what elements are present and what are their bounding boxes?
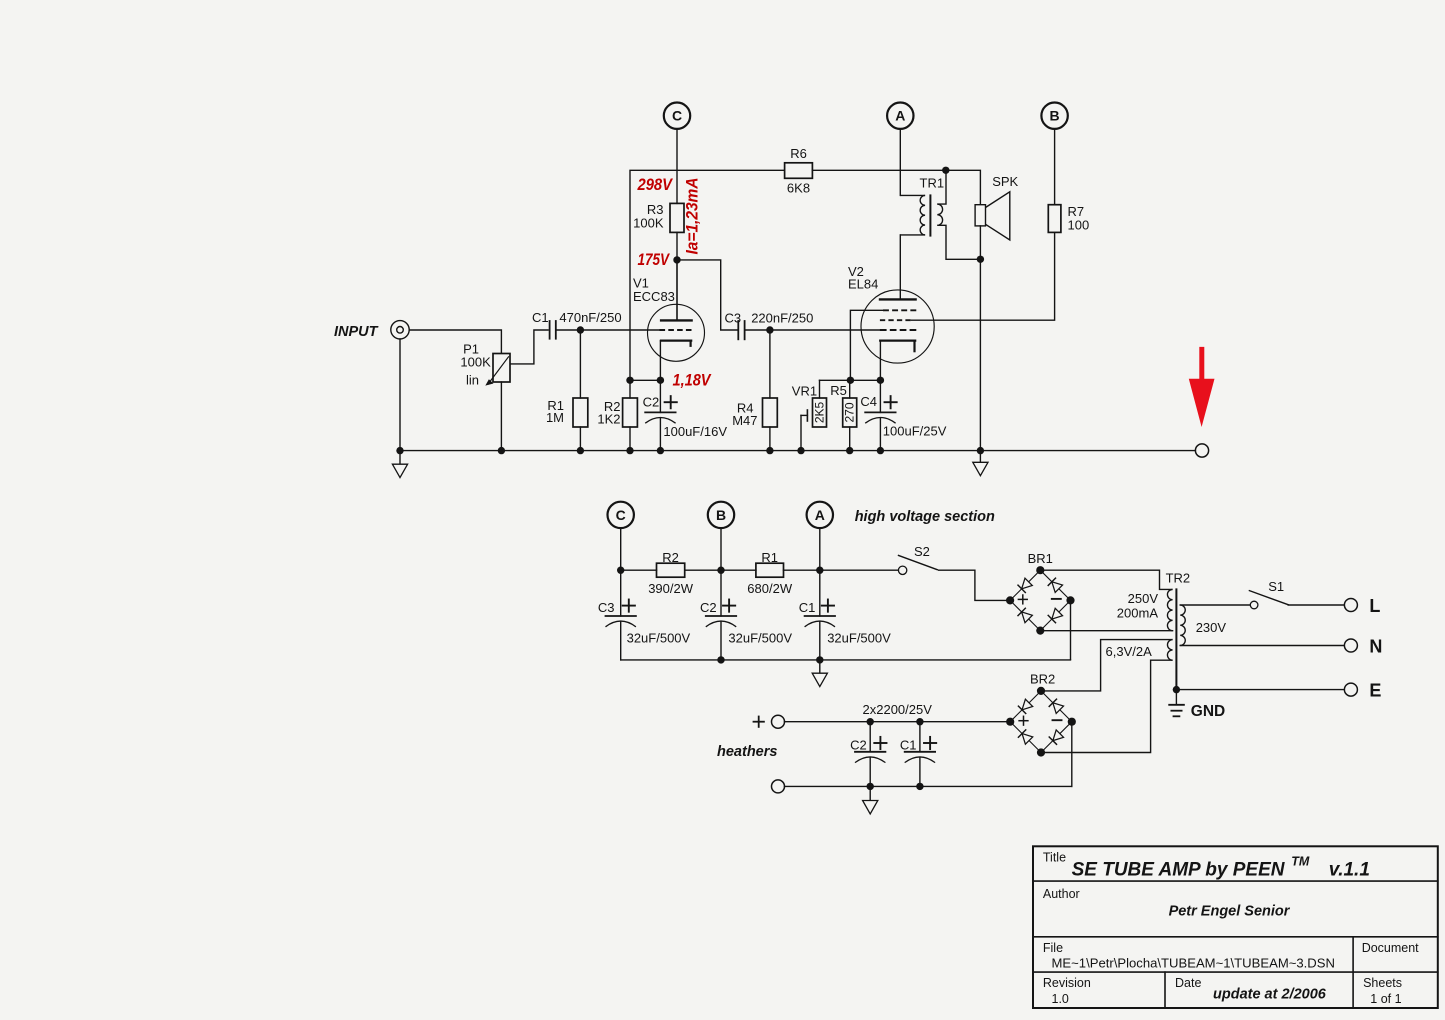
title block frame bbox=[1033, 846, 1438, 1008]
svg-text:220nF/250: 220nF/250 bbox=[751, 310, 813, 325]
resistor R1 bbox=[573, 330, 588, 451]
svg-text:B: B bbox=[1050, 108, 1060, 124]
R2 labels bbox=[597, 399, 620, 427]
wire R7 to V2 screen grid g2 bbox=[911, 232, 1055, 320]
transformer TR2 250V winding bbox=[1167, 589, 1172, 630]
svg-text:C2: C2 bbox=[643, 394, 660, 409]
heater bottom bus bbox=[785, 783, 1072, 790]
svg-text:high voltage section: high voltage section bbox=[855, 509, 995, 525]
TR2 label bbox=[1166, 571, 1191, 586]
V2 cathode junction row bbox=[820, 377, 885, 384]
S2 label bbox=[914, 544, 930, 559]
svg-text:1.0: 1.0 bbox=[1052, 992, 1069, 1006]
C2 labels bbox=[643, 394, 728, 439]
svg-text:230V: 230V bbox=[1196, 620, 1227, 635]
wire R3 to 175V node and V1 anode bbox=[676, 232, 678, 320]
svg-text:S1: S1 bbox=[1268, 579, 1284, 594]
svg-text:100uF/25V: 100uF/25V bbox=[883, 424, 947, 439]
svg-text:2K5: 2K5 bbox=[813, 402, 827, 424]
svg-text:680/2W: 680/2W bbox=[747, 581, 793, 596]
R3 labels bbox=[633, 202, 664, 231]
junction V1 cathode row bbox=[626, 377, 664, 384]
resistor R7 bbox=[1048, 205, 1061, 233]
red label Ia=1,23mA (rotated) bbox=[683, 178, 702, 255]
svg-text:E: E bbox=[1369, 680, 1381, 700]
R5 labels bbox=[830, 383, 856, 423]
V2 labels bbox=[848, 264, 878, 292]
ground (input) bbox=[392, 451, 407, 478]
R1 psu labels bbox=[747, 550, 793, 596]
svg-text:1K2: 1K2 bbox=[597, 412, 620, 427]
wire core to E bbox=[1173, 686, 1345, 693]
svg-text:TM: TM bbox=[1291, 855, 1310, 869]
C1 heater labels bbox=[900, 737, 936, 752]
svg-text:6,3V/2A: 6,3V/2A bbox=[1106, 644, 1153, 659]
switch S1 bbox=[1180, 591, 1344, 609]
TR2 core bbox=[1175, 589, 1177, 689]
C2 psu labels bbox=[700, 600, 792, 646]
R2 psu labels bbox=[648, 550, 694, 596]
potentiometer P1 bbox=[485, 354, 510, 386]
svg-text:Sheets: Sheets bbox=[1363, 976, 1402, 990]
svg-text:6K8: 6K8 bbox=[787, 181, 810, 196]
svg-text:File: File bbox=[1043, 941, 1063, 955]
capacitor C4 bbox=[865, 380, 895, 450]
svg-text:C1: C1 bbox=[799, 600, 816, 615]
terminal N bbox=[1344, 636, 1382, 656]
svg-text:Title: Title bbox=[1043, 851, 1066, 865]
svg-text:C1: C1 bbox=[900, 737, 917, 752]
svg-text:32uF/500V: 32uF/500V bbox=[728, 631, 792, 646]
C3 value labels bbox=[725, 310, 814, 325]
svg-text:298V: 298V bbox=[637, 175, 674, 194]
svg-text:B: B bbox=[716, 507, 726, 523]
input jack J1 bbox=[391, 321, 409, 339]
svg-text:32uF/500V: 32uF/500V bbox=[827, 631, 891, 646]
svg-text:SE TUBE AMP by PEEN: SE TUBE AMP by PEEN bbox=[1072, 860, 1286, 881]
svg-text:390/2W: 390/2W bbox=[648, 581, 694, 596]
svg-text:ME~1\Petr\Plocha\TUBEAM~1\TUBE: ME~1\Petr\Plocha\TUBEAM~1\TUBEAM~3.DSN bbox=[1052, 955, 1335, 970]
svg-text:SPK: SPK bbox=[992, 174, 1018, 189]
TR1 label bbox=[920, 176, 945, 191]
bridge rectifier BR1 bbox=[1006, 566, 1075, 635]
resistor R2 (cathode) bbox=[623, 380, 638, 450]
bridge rectifier BR2 bbox=[1006, 687, 1076, 757]
high voltage section label bbox=[855, 509, 995, 525]
svg-text:C: C bbox=[672, 108, 682, 124]
wire to SPK top bbox=[946, 170, 981, 204]
svg-text:BR2: BR2 bbox=[1030, 672, 1055, 687]
svg-text:TR2: TR2 bbox=[1166, 571, 1191, 586]
ground rail (top section) bbox=[400, 450, 1195, 452]
svg-text:C3: C3 bbox=[725, 310, 742, 325]
C2 heater labels bbox=[850, 737, 886, 752]
svg-text:GND: GND bbox=[1191, 703, 1225, 720]
red label 1,18V bbox=[673, 370, 712, 389]
svg-text:C: C bbox=[616, 507, 626, 523]
R6 labels bbox=[787, 146, 810, 196]
node A (psu) bbox=[807, 502, 833, 571]
capacitor C2 (heater) bbox=[855, 722, 885, 787]
C3 psu labels bbox=[598, 600, 691, 646]
svg-text:lin: lin bbox=[466, 372, 479, 387]
svg-text:TR1: TR1 bbox=[920, 176, 945, 191]
red label 298V bbox=[637, 175, 674, 194]
svg-text:1,18V: 1,18V bbox=[673, 370, 712, 389]
junction 175V node bbox=[673, 256, 680, 263]
wire BR2 minus down bbox=[1071, 722, 1073, 787]
svg-text:INPUT: INPUT bbox=[334, 324, 379, 340]
svg-text:R5: R5 bbox=[830, 383, 847, 398]
svg-text:100: 100 bbox=[1068, 218, 1090, 233]
junction C3/R4 bbox=[766, 326, 773, 333]
svg-text:Ia=1,23mA: Ia=1,23mA bbox=[683, 178, 702, 255]
250V 200mA labels bbox=[1117, 591, 1159, 621]
R1 labels bbox=[546, 398, 564, 425]
VR1 labels bbox=[792, 384, 827, 423]
capacitor C1 (heater) bbox=[905, 722, 935, 787]
svg-text:100uF/16V: 100uF/16V bbox=[663, 424, 727, 439]
svg-text:470nF/250: 470nF/250 bbox=[559, 310, 621, 325]
svg-text:A: A bbox=[895, 108, 905, 124]
svg-text:C4: C4 bbox=[860, 394, 877, 409]
red arrow marker bbox=[1189, 347, 1215, 427]
6,3V/2A label bbox=[1106, 644, 1153, 659]
resistor R5 bbox=[843, 380, 857, 450]
svg-text:Revision: Revision bbox=[1043, 976, 1091, 990]
trimmer VR1 bbox=[801, 380, 827, 450]
230V label bbox=[1196, 620, 1227, 635]
svg-text:Petr Engel Senior: Petr Engel Senior bbox=[1169, 904, 1291, 920]
pentode V2 EL84 bbox=[861, 290, 934, 380]
svg-text:S2: S2 bbox=[914, 544, 930, 559]
BR2 label bbox=[1030, 672, 1055, 687]
svg-text:L: L bbox=[1369, 596, 1380, 616]
node C (top) bbox=[664, 103, 690, 204]
node B (top) bbox=[1041, 103, 1067, 205]
wire 6.3V bottom to BR2 bbox=[1041, 660, 1173, 752]
svg-text:C3: C3 bbox=[598, 600, 615, 615]
junction R6 wire / secondary bbox=[942, 167, 949, 174]
svg-text:N: N bbox=[1369, 636, 1382, 656]
svg-text:A: A bbox=[815, 507, 825, 523]
SPK label bbox=[992, 174, 1018, 189]
svg-text:EL84: EL84 bbox=[848, 277, 878, 292]
TR2 230V winding bbox=[1180, 605, 1185, 645]
resistor R2 (psu dropper) bbox=[657, 563, 685, 577]
svg-text:heathers: heathers bbox=[717, 744, 777, 760]
svg-text:R2: R2 bbox=[662, 550, 679, 565]
svg-text:v.1.1: v.1.1 bbox=[1329, 860, 1370, 881]
2x2200/25V label bbox=[863, 702, 933, 717]
transformer TR1 primary bbox=[900, 195, 925, 299]
red label 175V bbox=[638, 250, 671, 269]
S1 label bbox=[1268, 579, 1284, 594]
svg-text:R6: R6 bbox=[790, 146, 807, 161]
wire P1 wiper to C1 bbox=[510, 330, 549, 364]
V1 labels bbox=[633, 276, 675, 304]
INPUT label bbox=[334, 324, 379, 340]
wire BR1 AC bottom to TR2 bbox=[1040, 630, 1172, 632]
svg-text:100K: 100K bbox=[633, 216, 664, 231]
svg-text:M47: M47 bbox=[732, 413, 757, 428]
C1 value labels bbox=[532, 310, 622, 325]
capacitor C3 (coupling) bbox=[738, 321, 744, 339]
wire S2 to BR1 bbox=[938, 570, 1010, 600]
heater - terminal bbox=[772, 780, 785, 793]
resistor R1 (psu dropper) bbox=[756, 563, 784, 577]
svg-text:2x2200/25V: 2x2200/25V bbox=[863, 702, 933, 717]
triode V1 ECC83 bbox=[648, 304, 705, 380]
heater top bus bbox=[785, 718, 1011, 725]
svg-text:32uF/500V: 32uF/500V bbox=[627, 631, 691, 646]
svg-text:ECC83: ECC83 bbox=[633, 289, 675, 304]
BR1 label bbox=[1028, 551, 1053, 566]
NFB wire (R6 left leg down to V1 cathode) bbox=[630, 170, 785, 380]
capacitor C3 (psu filter) bbox=[606, 570, 636, 660]
svg-text:1 of 1: 1 of 1 bbox=[1370, 992, 1401, 1006]
svg-text:270: 270 bbox=[843, 402, 857, 422]
svg-text:1M: 1M bbox=[546, 410, 564, 425]
rail junctions bbox=[396, 447, 984, 454]
svg-text:200mA: 200mA bbox=[1117, 606, 1159, 621]
wire 230V bottom to N bbox=[1180, 645, 1344, 647]
svg-text:update at 2/2006: update at 2/2006 bbox=[1213, 987, 1327, 1003]
C1 psu labels bbox=[799, 600, 891, 646]
C4 labels bbox=[860, 394, 946, 439]
svg-text:175V: 175V bbox=[638, 250, 671, 269]
P1 labels: P1 100K lin bbox=[460, 342, 491, 388]
title block texts bbox=[1043, 851, 1419, 1007]
resistor R4 (grid leak) bbox=[763, 330, 778, 451]
svg-text:R1: R1 bbox=[761, 550, 778, 565]
GND label bbox=[1191, 703, 1225, 720]
capacitor C1 (coupling) bbox=[550, 321, 556, 339]
junction C1/R1 bbox=[577, 326, 584, 333]
ground (V2 side) bbox=[973, 451, 988, 476]
transformer TR1 secondary bbox=[937, 170, 980, 259]
capacitor C2 (cathode bypass) bbox=[645, 380, 675, 450]
wire C3 to V2 grid bbox=[745, 329, 880, 331]
svg-text:Author: Author bbox=[1043, 887, 1080, 901]
GND earth symbol bbox=[1169, 690, 1184, 717]
wire input to P1 bbox=[409, 330, 501, 354]
capacitor C1 (psu filter) bbox=[805, 570, 835, 660]
R4 labels bbox=[732, 400, 757, 428]
svg-text:BR1: BR1 bbox=[1028, 551, 1053, 566]
wire 6.3V top to BR2 bbox=[1041, 640, 1173, 691]
terminal E bbox=[1344, 680, 1381, 700]
svg-text:C2: C2 bbox=[850, 737, 867, 752]
node B (psu) bbox=[708, 502, 734, 571]
TR2 6.3V winding bbox=[1167, 640, 1172, 661]
heathers label bbox=[717, 744, 777, 760]
wire SPK bottom / junction bbox=[977, 226, 984, 451]
svg-text:Date: Date bbox=[1175, 976, 1201, 990]
capacitor C2 (psu filter) bbox=[706, 570, 736, 660]
speaker SPK bbox=[975, 192, 1010, 240]
node A (top) bbox=[887, 103, 913, 196]
heater + terminal bbox=[754, 715, 785, 728]
svg-text:100K: 100K bbox=[460, 355, 491, 370]
wire P1 bottom to rail bbox=[500, 382, 502, 451]
terminal L bbox=[1344, 596, 1380, 616]
wire BR1 minus to ground bus bbox=[1070, 600, 1072, 660]
junctions on HV bus bbox=[617, 567, 824, 574]
V2 g3 to cathode wire bbox=[850, 310, 883, 380]
wire BR1 AC top to TR2 bbox=[1040, 570, 1172, 589]
wire C1 to V1 grid bbox=[557, 329, 660, 331]
switch S2 bbox=[898, 555, 937, 574]
HV bus C-B-A bbox=[621, 569, 899, 571]
svg-text:250V: 250V bbox=[1128, 591, 1159, 606]
svg-text:C1: C1 bbox=[532, 310, 549, 325]
resistor R3 bbox=[670, 203, 684, 232]
wire R6 right to OPT secondary top bbox=[812, 169, 945, 171]
wire input ground drop bbox=[399, 339, 401, 451]
PSU ground bus bbox=[621, 656, 1071, 663]
svg-text:VR1: VR1 bbox=[792, 384, 817, 399]
ground (psu) bbox=[812, 660, 827, 687]
resistor R6 (feedback) bbox=[785, 163, 813, 179]
TR1 core bbox=[929, 195, 931, 235]
ground (heater) bbox=[863, 786, 878, 814]
rail output terminal bbox=[1195, 444, 1208, 457]
wire 175V node to C3 bbox=[677, 260, 738, 330]
node C (psu) bbox=[608, 502, 634, 571]
svg-text:Document: Document bbox=[1362, 941, 1419, 955]
svg-text:C2: C2 bbox=[700, 600, 717, 615]
R7 labels bbox=[1068, 204, 1090, 233]
